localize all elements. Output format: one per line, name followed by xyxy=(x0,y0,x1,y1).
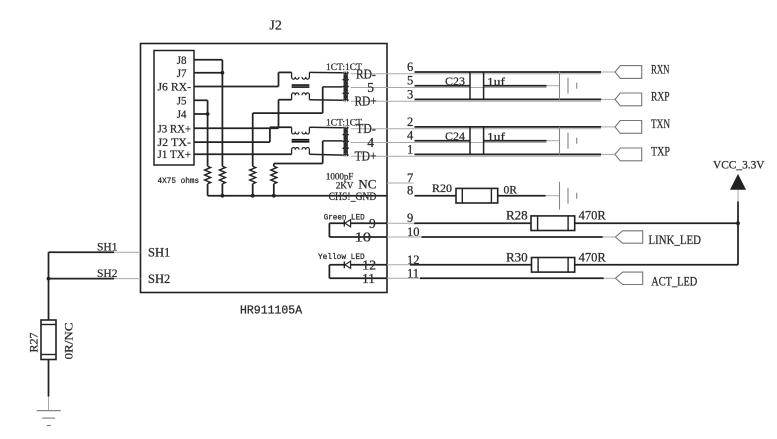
svg-text:RD+: RD+ xyxy=(355,94,377,109)
svg-text:9: 9 xyxy=(369,216,376,231)
svg-text:8: 8 xyxy=(407,184,413,198)
svg-text:3: 3 xyxy=(407,87,413,101)
svg-text:SH2: SH2 xyxy=(97,266,118,280)
svg-text:11: 11 xyxy=(362,271,375,286)
svg-text:R28: R28 xyxy=(506,208,528,223)
svg-text:C24: C24 xyxy=(445,129,465,143)
svg-text:CHS!_GND: CHS!_GND xyxy=(329,191,377,203)
svg-text:SH1: SH1 xyxy=(148,245,170,259)
svg-text:R30: R30 xyxy=(506,249,528,264)
svg-text:5: 5 xyxy=(367,80,374,95)
svg-text:NC: NC xyxy=(358,176,376,191)
svg-text:0R: 0R xyxy=(504,185,518,197)
svg-text:R27: R27 xyxy=(26,332,40,352)
svg-text:RXP: RXP xyxy=(651,90,670,104)
svg-text:R20: R20 xyxy=(432,181,452,195)
svg-text:HR911105A: HR911105A xyxy=(240,305,302,318)
svg-text:J7: J7 xyxy=(177,66,187,80)
svg-text:J8: J8 xyxy=(177,53,187,67)
svg-text:J3 RX+: J3 RX+ xyxy=(158,121,192,135)
svg-text:VCC_3.3V: VCC_3.3V xyxy=(713,157,765,171)
svg-text:1uf: 1uf xyxy=(487,129,505,143)
svg-text:C23: C23 xyxy=(445,74,465,88)
svg-text:TXN: TXN xyxy=(651,117,670,131)
svg-text:TXP: TXP xyxy=(651,145,670,159)
svg-text:Yellow LED: Yellow LED xyxy=(318,253,365,262)
svg-text:4X75 ohms: 4X75 ohms xyxy=(158,177,200,186)
svg-text:5: 5 xyxy=(407,74,413,88)
svg-text:SH1: SH1 xyxy=(97,240,118,254)
svg-text:LINK_LED: LINK_LED xyxy=(649,233,702,247)
svg-text:TD+: TD+ xyxy=(355,149,377,164)
svg-text:Green LED: Green LED xyxy=(324,213,365,222)
svg-text:2KV: 2KV xyxy=(336,181,354,191)
svg-text:10: 10 xyxy=(355,230,372,245)
svg-text:J5: J5 xyxy=(177,93,187,107)
svg-text:6: 6 xyxy=(407,60,413,74)
svg-text:4: 4 xyxy=(407,129,414,143)
svg-text:RXN: RXN xyxy=(651,62,670,76)
svg-text:4: 4 xyxy=(367,135,374,150)
svg-text:2: 2 xyxy=(407,115,413,129)
svg-text:1: 1 xyxy=(407,142,413,156)
svg-text:J4: J4 xyxy=(177,107,187,121)
svg-text:J2: J2 xyxy=(269,18,281,33)
svg-text:SH2: SH2 xyxy=(148,272,170,286)
svg-text:470R: 470R xyxy=(579,250,607,264)
svg-text:J1 TX+: J1 TX+ xyxy=(158,147,192,161)
svg-text:0R/NC: 0R/NC xyxy=(62,323,76,360)
svg-text:J6 RX-: J6 RX- xyxy=(158,80,192,94)
svg-text:1uf: 1uf xyxy=(487,74,505,88)
svg-text:470R: 470R xyxy=(579,209,607,223)
svg-text:ACT_LED: ACT_LED xyxy=(651,274,697,288)
